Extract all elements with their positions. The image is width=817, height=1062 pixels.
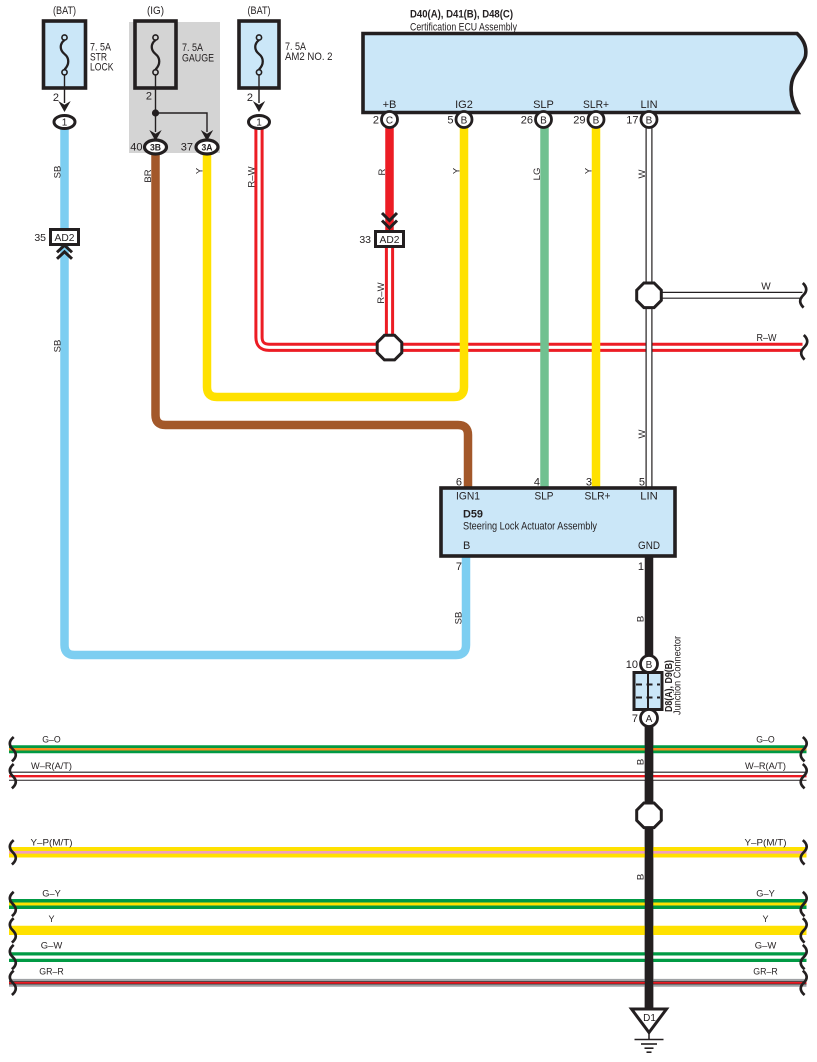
svg-text:Y: Y <box>452 167 463 174</box>
connector circle B <box>641 656 658 673</box>
svg-text:37: 37 <box>181 142 193 154</box>
ECU pin circle 5 B <box>456 112 472 128</box>
svg-text:17: 17 <box>626 115 638 127</box>
svg-text:5: 5 <box>639 477 645 489</box>
connector 1 oval (F1) <box>54 116 75 129</box>
svg-text:A: A <box>646 714 653 725</box>
svg-text:R–W: R–W <box>376 282 387 303</box>
wire Y from ECU SLR+ to steering lock pin 3 <box>592 127 601 488</box>
bus wire GR-R <box>9 967 807 996</box>
connector 3A oval <box>196 140 218 154</box>
ECU assembly box D40/D41/D48 <box>363 34 806 113</box>
svg-text:G–O: G–O <box>756 735 775 745</box>
brace right end of R-W wire <box>801 335 807 360</box>
svg-text:2: 2 <box>146 91 152 103</box>
fuse F3 (BAT) AM2 NO. 2 <box>239 5 333 88</box>
arrow into connector 3A <box>201 130 213 141</box>
svg-text:GAUGE: GAUGE <box>182 53 214 65</box>
svg-text:B: B <box>636 616 647 622</box>
svg-text:SB: SB <box>52 166 63 179</box>
svg-text:W: W <box>761 282 771 293</box>
svg-text:SB: SB <box>52 340 63 353</box>
svg-text:Certification ECU Assembly: Certification ECU Assembly <box>410 22 517 34</box>
svg-text:1: 1 <box>638 561 644 573</box>
svg-text:Y–P(M/T): Y–P(M/T) <box>31 838 73 848</box>
svg-text:6: 6 <box>456 477 462 489</box>
ECU pin circle 29 B <box>588 112 604 128</box>
svg-text:LG: LG <box>532 168 543 181</box>
svg-text:LOCK: LOCK <box>90 62 114 74</box>
bus wire Y-P(M/T) <box>9 838 807 865</box>
svg-text:GR–R: GR–R <box>753 967 778 977</box>
svg-text:29: 29 <box>573 115 585 127</box>
chevron above 33 AD2 pointing down <box>382 213 397 228</box>
fuse F2 (IG) GAUGE <box>135 5 214 88</box>
svg-text:Y: Y <box>762 914 768 924</box>
svg-text:D40(A), D41(B), D48(C): D40(A), D41(B), D48(C) <box>410 9 513 21</box>
svg-text:1: 1 <box>256 118 262 129</box>
svg-text:(BAT): (BAT) <box>53 5 76 17</box>
wire R-W from fuse3 connector 1 to right edge <box>259 128 803 347</box>
pin 2 of fuse F3 <box>258 75 260 103</box>
svg-text:B: B <box>461 116 468 127</box>
svg-text:40: 40 <box>130 142 142 154</box>
junction octagon W <box>637 283 662 308</box>
bus wire G-W <box>9 941 807 970</box>
bus wire G-O <box>9 735 807 762</box>
svg-text:AD2: AD2 <box>380 234 400 246</box>
svg-text:SB: SB <box>454 612 465 625</box>
svg-text:GND: GND <box>638 540 660 552</box>
ECU pin circle 26 B <box>536 112 552 128</box>
svg-text:R–W: R–W <box>246 166 257 187</box>
wire Y from connector 3A to ECU IG2 <box>207 127 464 397</box>
wire LG from ECU SLP to steering lock pin 4 <box>540 127 549 488</box>
svg-text:Steering Lock Actuator Assembl: Steering Lock Actuator Assembly <box>463 521 597 533</box>
svg-text:R–W: R–W <box>757 333 777 344</box>
ECU pin circle 17 B <box>641 112 657 128</box>
wire SB from fuse1 to steering lock pin 7 <box>65 129 467 655</box>
svg-text:2: 2 <box>247 92 253 104</box>
svg-text:3A: 3A <box>202 143 213 154</box>
gray panel (IG) <box>129 22 220 153</box>
chevron below 35 AD2 pointing up <box>57 245 72 258</box>
svg-text:W–R(A/T): W–R(A/T) <box>745 761 786 771</box>
svg-text:26: 26 <box>521 115 533 127</box>
svg-text:33: 33 <box>359 234 371 246</box>
svg-text:GR–R: GR–R <box>39 967 64 977</box>
bus wire W-R(A/T) <box>9 761 807 788</box>
svg-text:R: R <box>377 168 388 175</box>
svg-text:Y–P(M/T): Y–P(M/T) <box>745 838 787 848</box>
svg-text:D59: D59 <box>463 509 483 521</box>
svg-text:AM2 NO. 2: AM2 NO. 2 <box>285 51 333 63</box>
connector 35 AD2 <box>34 230 78 245</box>
svg-text:1: 1 <box>62 118 68 129</box>
wire R from ECU +B to connector 33 AD2 <box>385 127 394 232</box>
arrow into connector 3B <box>149 130 161 141</box>
svg-text:B: B <box>593 116 600 127</box>
svg-text:Junction Connector: Junction Connector <box>673 635 684 715</box>
svg-text:W: W <box>637 429 648 438</box>
svg-text:LIN: LIN <box>640 99 657 111</box>
junction octagon B <box>637 803 662 828</box>
svg-text:2: 2 <box>53 92 59 104</box>
redraw B wire over buses <box>645 726 654 1009</box>
bus wire Y <box>9 914 807 943</box>
svg-text:W: W <box>637 169 648 178</box>
svg-text:B: B <box>646 660 653 671</box>
wire W from ECU LIN to steering lock pin 5 <box>646 127 653 488</box>
svg-text:B: B <box>646 116 653 127</box>
svg-text:7: 7 <box>632 713 638 725</box>
svg-text:(BAT): (BAT) <box>248 5 271 17</box>
svg-text:G–Y: G–Y <box>756 889 775 899</box>
connector 33 AD2 <box>359 232 403 247</box>
svg-text:Y: Y <box>584 167 595 174</box>
svg-text:3B: 3B <box>150 143 161 154</box>
svg-text:BR: BR <box>143 169 154 182</box>
pin 2 of fuse F1 <box>64 75 66 103</box>
svg-text:Y: Y <box>48 914 54 924</box>
ground symbol D1 <box>632 1009 667 1052</box>
fuse F1 (BAT) STR LOCK <box>44 5 115 88</box>
svg-text:W–R(A/T): W–R(A/T) <box>31 761 72 771</box>
svg-text:B: B <box>463 540 470 552</box>
ECU pin circle 2 C <box>382 112 398 128</box>
svg-text:IGN1: IGN1 <box>456 491 480 503</box>
svg-text:5: 5 <box>447 115 453 127</box>
wire W horizontal from octagon to right edge <box>649 292 803 299</box>
wire R-W from connector 33 AD2 to junction octagon <box>385 246 394 347</box>
steering lock actuator assembly box D59 <box>441 488 675 556</box>
svg-text:LIN: LIN <box>640 491 658 503</box>
arrow into connector 1 <box>58 101 70 112</box>
svg-text:7: 7 <box>456 561 462 573</box>
wire branch to 3A <box>156 113 208 132</box>
junction dot <box>152 109 159 116</box>
svg-text:G–Y: G–Y <box>42 889 61 899</box>
svg-text:D1: D1 <box>643 1013 656 1024</box>
svg-text:SLP: SLP <box>533 99 554 111</box>
arrow into connector 1 (F3) <box>253 101 265 112</box>
svg-text:(IG): (IG) <box>147 5 164 17</box>
svg-text:SLR+: SLR+ <box>583 99 609 111</box>
junction connector box D8/D9 <box>634 673 662 710</box>
svg-text:G–W: G–W <box>755 941 777 951</box>
connector 1 oval (F3) <box>249 116 270 129</box>
svg-text:AD2: AD2 <box>55 232 75 244</box>
svg-text:+B: +B <box>383 99 397 111</box>
wire B from GND to ground <box>645 556 654 1009</box>
svg-text:2: 2 <box>373 115 379 127</box>
junction octagon R-W <box>377 335 402 360</box>
svg-text:3: 3 <box>586 477 592 489</box>
svg-text:IG2: IG2 <box>455 99 473 111</box>
svg-text:4: 4 <box>534 477 540 489</box>
svg-text:B: B <box>540 116 547 127</box>
pin 2 of fuse F2 <box>155 75 157 113</box>
svg-text:SLP: SLP <box>535 491 554 503</box>
bus wire G-Y <box>9 889 807 917</box>
svg-text:Y: Y <box>195 167 206 174</box>
connector 3B oval <box>145 140 167 154</box>
svg-text:G–W: G–W <box>41 941 63 951</box>
connector circle A <box>641 710 658 727</box>
svg-text:10: 10 <box>626 659 638 671</box>
brace right end of W wire <box>800 283 806 308</box>
svg-text:SLR+: SLR+ <box>585 491 611 503</box>
svg-text:G–O: G–O <box>42 735 61 745</box>
wire BR from connector 3B to steering lock pin 6 IGN1 <box>156 155 469 488</box>
svg-text:C: C <box>386 116 393 127</box>
svg-text:35: 35 <box>34 232 46 244</box>
